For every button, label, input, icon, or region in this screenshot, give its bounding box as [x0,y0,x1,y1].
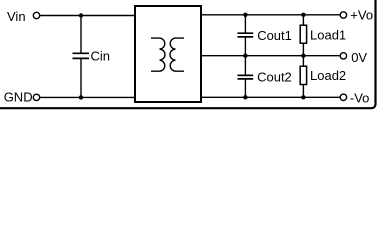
node Vin-Cin junction [79,13,83,17]
terminal -Vo [340,94,346,100]
resistor Load2 [300,66,306,84]
terminal 0V [340,53,346,59]
svg-text:-Vo: -Vo [350,91,370,106]
wire 0V rail [200,55,340,57]
svg-text:GND: GND [4,90,33,105]
wire Cout1 vertical bottom [244,37,246,56]
svg-text:Cout2: Cout2 [257,70,292,85]
wire Load1 vertical bottom [302,43,304,56]
node GND-Cin junction [79,95,83,99]
node -Vo-Cout2 junction [243,95,247,99]
wire Cout2 vertical bottom [244,79,246,97]
svg-text:Load2: Load2 [310,68,346,83]
svg-text:+Vo: +Vo [350,8,373,23]
node +Vo-Cout1 junction [243,13,247,17]
wire -Vo rail [200,96,340,98]
node 0V-Cout junction [243,54,247,58]
node -Vo-Load2 junction [301,95,305,99]
capacitor Cin [73,53,90,58]
wire Cin vertical bottom [80,58,82,97]
node +Vo-Load1 junction [301,13,305,17]
wire Load1 vertical top [302,15,304,25]
wire Cout1 vertical top [244,15,246,33]
svg-text:Cin: Cin [91,49,111,64]
terminal +Vo [340,12,346,18]
resistor Load1 [300,25,306,43]
terminal GND [33,94,39,100]
capacitor Cout1 [238,33,254,37]
wire Cout2 vertical top [244,56,246,76]
svg-text:Vin: Vin [7,9,26,24]
wire Vin rail [40,15,136,17]
wire +Vo rail [200,14,340,16]
transformer primary winding [151,38,165,71]
frame (decorative) [0,0,376,108]
svg-text:0V: 0V [351,50,367,65]
wire Load2 vertical top [302,56,304,66]
svg-text:Load1: Load1 [310,27,346,42]
wire Load2 vertical bottom [302,85,304,98]
converter box [135,6,201,102]
transformer secondary winding [170,38,184,71]
svg-text:Cout1: Cout1 [257,28,292,43]
capacitor Cout2 [238,75,254,79]
wire GND rail [40,96,136,98]
node 0V-Load junction [301,54,305,58]
terminal Vin [33,12,39,18]
wire Cin vertical top [80,16,82,54]
